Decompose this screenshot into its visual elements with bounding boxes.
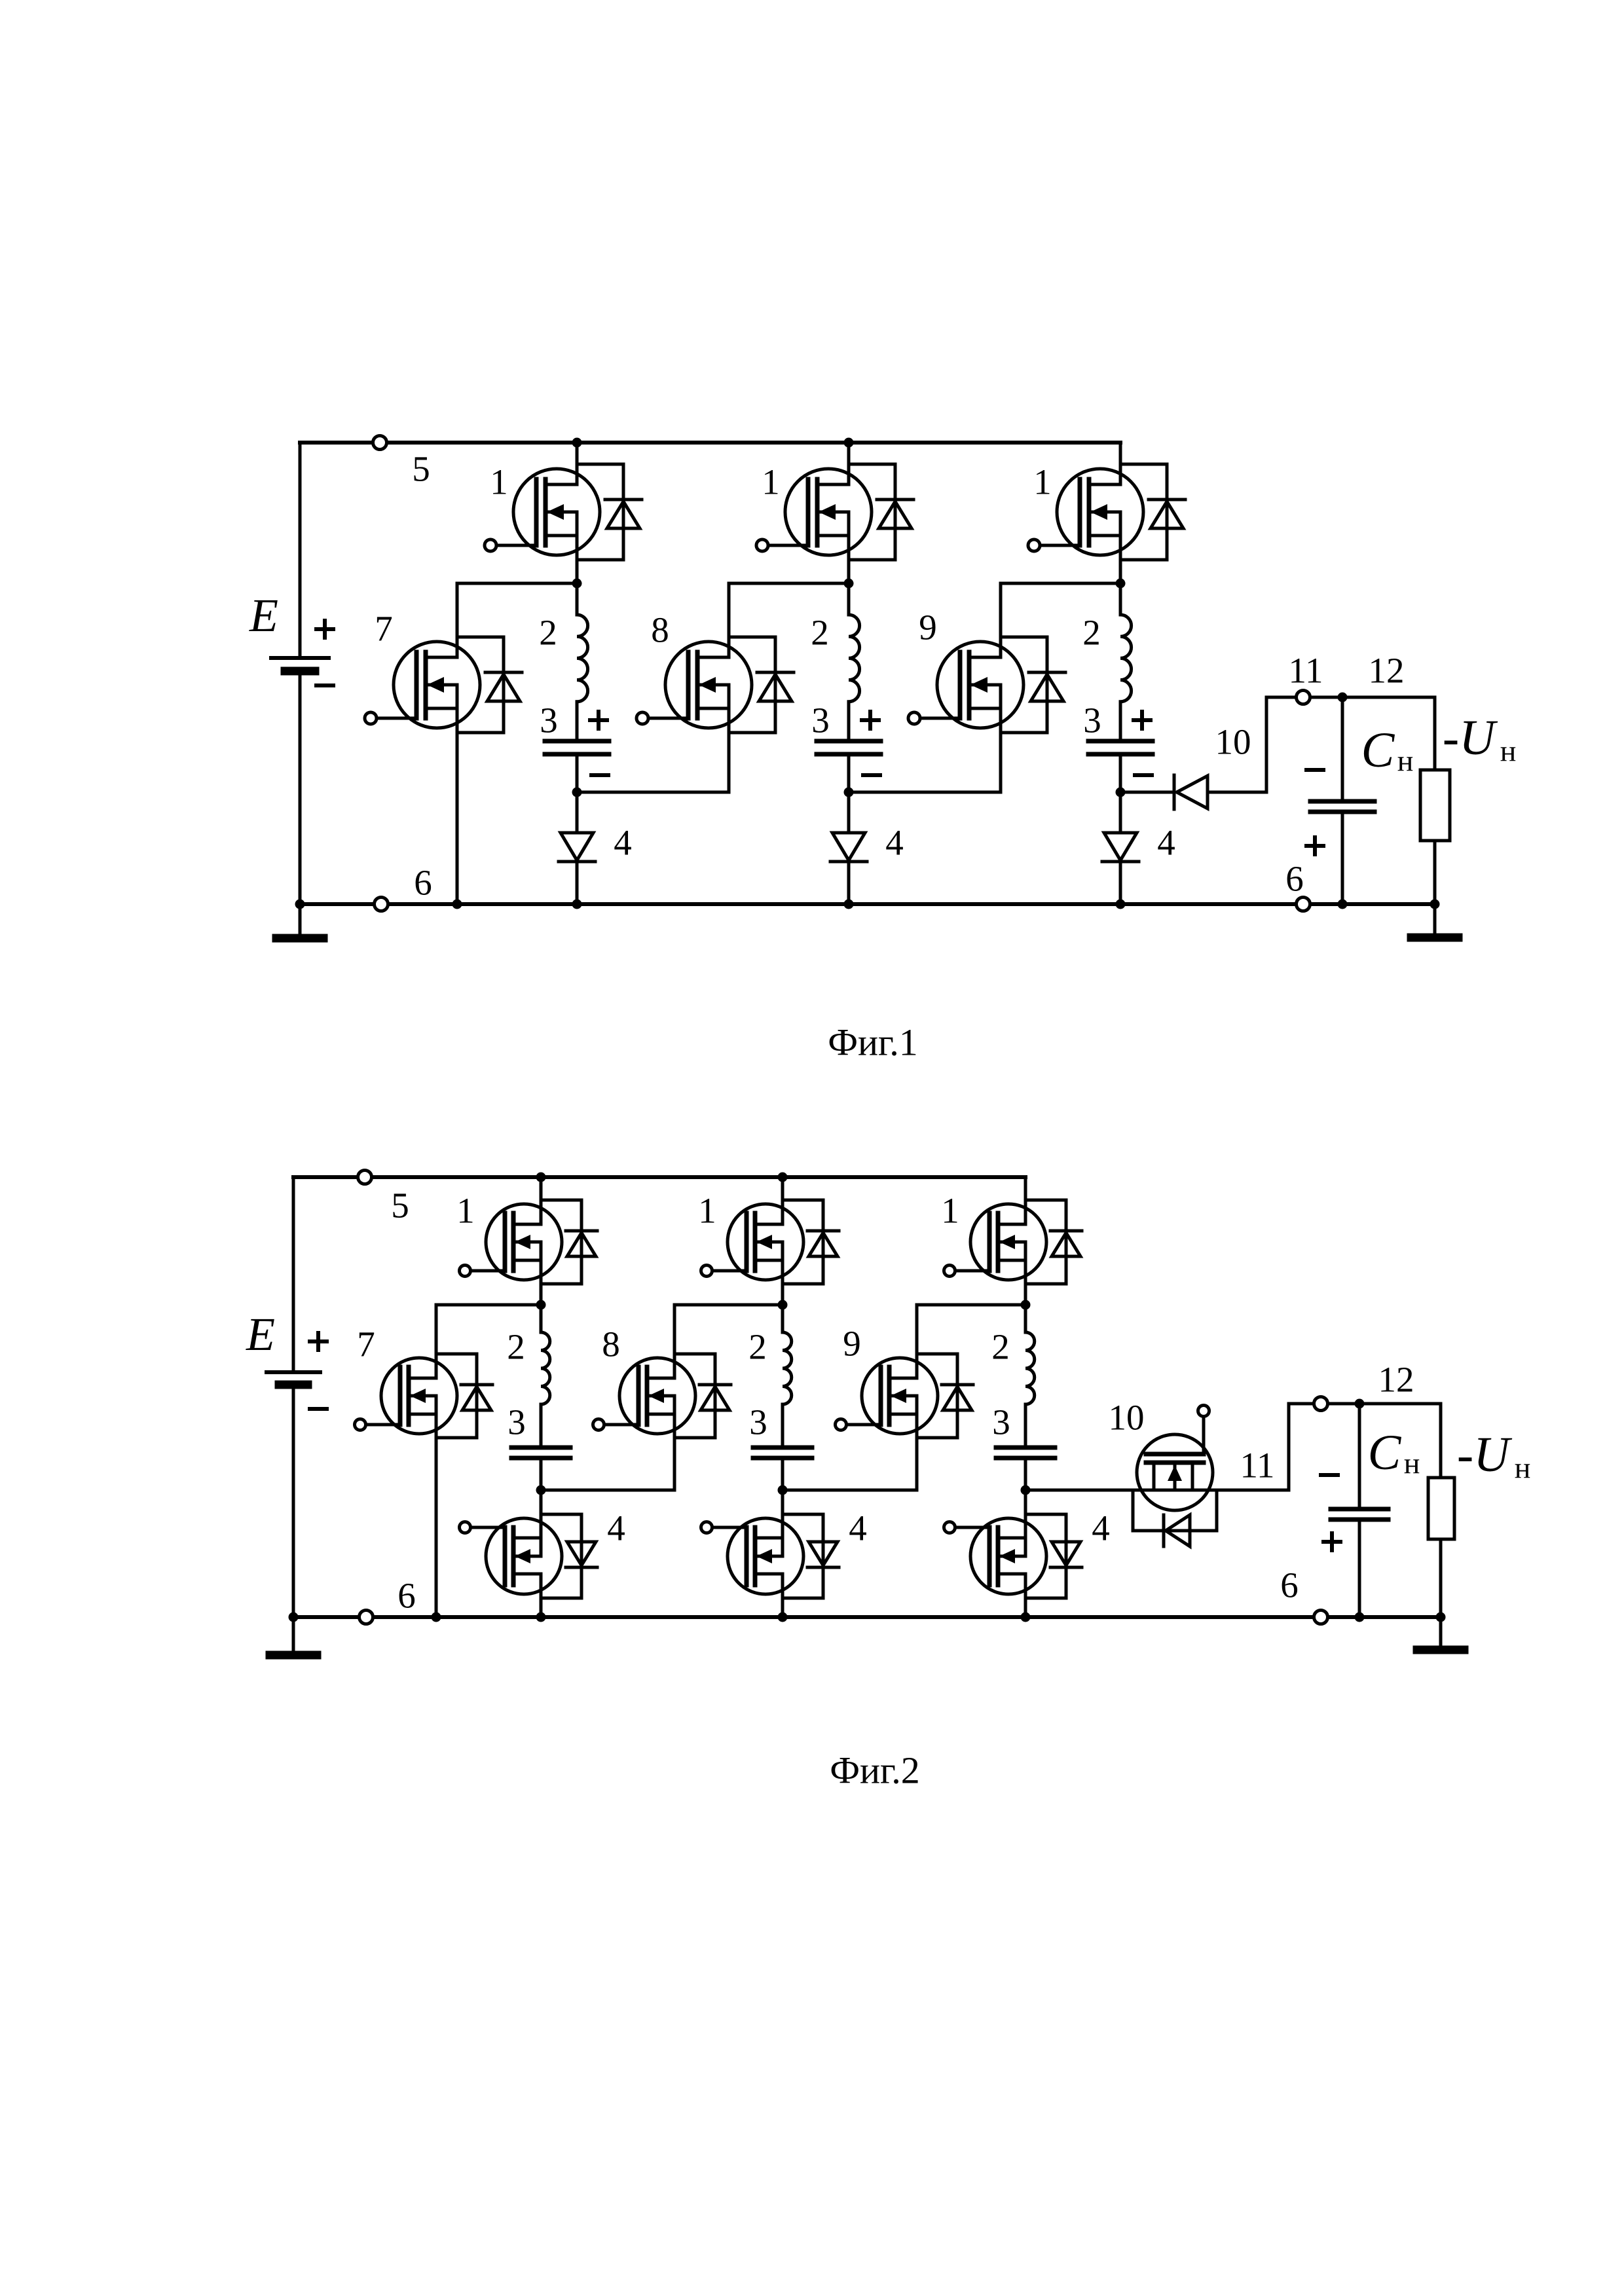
ground (left) xyxy=(270,1651,317,1660)
wire: phase3 capacitor node through transistor 10 to riser xyxy=(1025,1489,1289,1492)
junction (phase1 drain / bus 5) xyxy=(536,1173,546,1182)
svg-text:6: 6 xyxy=(1280,1565,1299,1605)
diode 4 (phase 2) xyxy=(830,833,867,862)
svg-text:3: 3 xyxy=(1083,701,1101,740)
wire: node 6 bottom bus xyxy=(300,902,1435,906)
svg-text:11: 11 xyxy=(1289,651,1323,691)
capacitor 3 (phase 3) xyxy=(996,1448,1055,1458)
wire: inductor to capacitor 3 xyxy=(847,702,851,741)
svg-text:2: 2 xyxy=(1082,613,1101,653)
wire: battery positive lead xyxy=(299,443,302,658)
wire: transistor 7 drain xyxy=(435,1305,438,1378)
wire: transistor 4 upper lead xyxy=(781,1490,784,1556)
wire: transistor 1 drain xyxy=(540,1177,543,1224)
capacitor 3 (phase 2) xyxy=(817,741,881,754)
terminal node 6 (left) xyxy=(375,898,388,911)
terminal node 6 (right) xyxy=(1314,1611,1328,1624)
svg-text:2: 2 xyxy=(507,1327,525,1367)
wire: transistor 1 source to inductor xyxy=(576,512,579,615)
capacitor 3 (phase 1) xyxy=(545,741,609,754)
svg-text:н: н xyxy=(1404,1447,1420,1480)
svg-text:Фиг.1: Фиг.1 xyxy=(828,1021,918,1064)
wire: transistor 4 upper lead xyxy=(540,1490,543,1556)
svg-text:9: 9 xyxy=(843,1324,861,1364)
inductor 2 (phase 1) xyxy=(577,615,588,702)
capacitor 3 minus sign (phase 3) xyxy=(1135,773,1152,777)
wire: capacitor 3 to node xyxy=(1119,754,1122,792)
wire: output rail 12 xyxy=(1289,1402,1441,1406)
battery plus sign xyxy=(316,621,333,638)
wire: transistor 1 drain xyxy=(847,443,851,484)
wire: capacitor 3 to node xyxy=(1024,1458,1027,1490)
terminal node xyxy=(1314,1397,1328,1411)
wire: ground stub (right) xyxy=(1433,904,1437,934)
wire: transistor 9 source xyxy=(915,1396,919,1490)
capacitor 3 minus sign (phase 1) xyxy=(591,773,608,777)
svg-text:2: 2 xyxy=(748,1327,767,1367)
svg-text:5: 5 xyxy=(412,449,430,489)
svg-text:9: 9 xyxy=(919,608,937,647)
wire: CH top lead xyxy=(1341,697,1344,801)
transistor 7 n-MOSFET with body diode xyxy=(365,637,522,733)
wire: transistor 7 source to bus 6 xyxy=(456,685,459,904)
junction node (phase 3 switch node) xyxy=(1116,579,1126,589)
wire: inductor to capacitor 3 xyxy=(1024,1404,1027,1448)
wire: transistor 9 source to phase 2 capacitor node xyxy=(849,791,1001,794)
diode 4 (phase 1) xyxy=(559,833,595,862)
junction (capacitor CH top) xyxy=(1355,1399,1365,1409)
transistor 1 (phase 2) n-MOSFET with body diode xyxy=(756,464,913,560)
wire: transistor 1 source to inductor xyxy=(1024,1242,1027,1332)
junction (transistor 4 / bus 6, phase 3) xyxy=(1021,1613,1031,1622)
junction (diode 4 / bus 6, phase 2) xyxy=(844,900,854,909)
junction (capacitor CH top) xyxy=(1338,693,1348,702)
svg-text:4: 4 xyxy=(1157,823,1175,863)
capacitor 3 minus sign (phase 2) xyxy=(863,773,880,777)
transistor 9 n-MOSFET with body diode xyxy=(908,637,1065,733)
wire: switch node to lower transistor drain xyxy=(729,582,849,585)
wire: load bottom lead xyxy=(1439,1539,1443,1617)
junction (phase 1 capacitor bottom node) xyxy=(536,1485,546,1495)
battery E xyxy=(267,1372,320,1385)
wire: transistor 9 source to phase 2 capacitor node xyxy=(783,1489,917,1492)
wire: transistor 8 drain xyxy=(673,1305,676,1378)
capacitor 3 (phase 1) xyxy=(511,1448,570,1458)
capacitor 3 plus sign (phase 2) xyxy=(862,712,879,729)
svg-text:1: 1 xyxy=(490,462,508,502)
transistor 4 (phase 2) n-MOSFET with body diode xyxy=(701,1514,840,1598)
junction (phase 3 capacitor bottom node) xyxy=(1116,788,1126,797)
junction (phase 2 capacitor bottom node) xyxy=(778,1485,788,1495)
svg-text:1: 1 xyxy=(1033,462,1052,502)
junction (load / bus 6) xyxy=(1436,1613,1446,1622)
wire: transistor 1 source to inductor xyxy=(1119,512,1122,615)
svg-text:E: E xyxy=(246,1308,275,1360)
junction (load / bus 6) xyxy=(1430,900,1440,909)
diode 4 (phase 3) xyxy=(1102,833,1139,862)
junction (phase 3 capacitor bottom node) xyxy=(1021,1485,1031,1495)
junction (CH / bus 6) xyxy=(1338,900,1348,909)
transistor 1 (phase 3) n-MOSFET with body diode xyxy=(1028,464,1185,560)
wire: transistor 1 source to inductor xyxy=(540,1242,543,1332)
wire: inductor to capacitor 3 xyxy=(540,1404,543,1448)
wire: capacitor 3 to node xyxy=(540,1458,543,1490)
wire: CH bottom lead xyxy=(1341,812,1344,904)
capacitor CH xyxy=(1331,1509,1388,1520)
wire: switch node to mid transistor drain xyxy=(436,1303,541,1307)
wire: load top lead xyxy=(1433,697,1437,770)
wire: switch node to lower transistor drain xyxy=(457,582,577,585)
diode 10 xyxy=(1174,775,1208,809)
inductor 2 (phase 2) xyxy=(783,1332,792,1404)
wire: load bottom lead xyxy=(1433,841,1437,904)
capacitor 3 (phase 2) xyxy=(753,1448,812,1458)
transistor 4 (phase 1) n-MOSFET with body diode xyxy=(460,1514,598,1598)
capacitor 3 (phase 3) xyxy=(1088,741,1153,754)
wire: inductor to capacitor 3 xyxy=(1119,702,1122,741)
junction (diode 4 / bus 6, phase 1) xyxy=(572,900,582,909)
wire: load top lead xyxy=(1439,1404,1443,1478)
capacitor CH minus sign xyxy=(1321,1473,1338,1477)
wire: transistor 1 drain xyxy=(576,443,579,484)
wire: capacitor 3 to node xyxy=(576,754,579,792)
junction (phase2 drain / bus 5) xyxy=(844,438,854,448)
transistor 4 (phase 3) n-MOSFET with body diode xyxy=(944,1514,1082,1598)
transistor 8 n-MOSFET with body diode xyxy=(637,637,794,733)
terminal node 5 xyxy=(358,1171,372,1184)
svg-text:10: 10 xyxy=(1109,1398,1145,1438)
junction (phase 1 capacitor bottom node) xyxy=(572,788,582,797)
wire: transistor 1 source to inductor xyxy=(781,1242,784,1332)
battery minus sign xyxy=(310,1407,327,1411)
wire: transistor 9 source xyxy=(999,685,1003,792)
wire: switch node to lower transistor drain xyxy=(1001,582,1120,585)
wire: transistor 1 drain xyxy=(1119,443,1122,484)
svg-text:C: C xyxy=(1361,723,1395,778)
svg-text:8: 8 xyxy=(651,610,669,650)
wire: output node 11-12 rail xyxy=(1266,696,1435,699)
wire: diode 10 to riser xyxy=(1208,791,1266,794)
inductor 2 (phase 2) xyxy=(849,615,860,702)
battery minus sign xyxy=(316,683,333,687)
svg-text:6: 6 xyxy=(397,1576,416,1616)
wire: diode 4 to bus 6 xyxy=(576,862,579,904)
wire: inductor to capacitor 3 xyxy=(781,1404,784,1448)
wire: switch node to mid transistor drain xyxy=(674,1303,783,1307)
wire: switch node to mid transistor drain xyxy=(917,1303,1025,1307)
junction (transistor 4 / bus 6, phase 2) xyxy=(778,1613,788,1622)
svg-text:3: 3 xyxy=(811,701,830,740)
ground (right) xyxy=(1411,934,1458,942)
wire: capacitor 3 to node xyxy=(781,1458,784,1490)
svg-text:-U: -U xyxy=(1443,710,1498,765)
wire: transistor 1 source to inductor xyxy=(847,512,851,615)
wire: phase3 capacitor node to diode 10 xyxy=(1120,791,1172,794)
wire: node 5 top bus xyxy=(293,1175,1025,1179)
svg-text:н: н xyxy=(1500,735,1517,768)
svg-text:3: 3 xyxy=(749,1402,767,1442)
wire: battery negative lead xyxy=(299,671,302,904)
svg-text:3: 3 xyxy=(507,1402,526,1442)
wire: node 5 top bus xyxy=(300,441,1120,445)
wire: transistor 8 source xyxy=(728,685,731,792)
wire: transistor 1 drain xyxy=(1024,1177,1027,1224)
svg-text:-U: -U xyxy=(1457,1427,1512,1482)
battery plus sign xyxy=(310,1333,327,1350)
wire: transistor 7 drain xyxy=(456,583,459,657)
wire: output riser xyxy=(1287,1404,1291,1490)
wire: inductor to capacitor 3 xyxy=(576,702,579,741)
transistor 1 (phase 2) n-MOSFET with body diode xyxy=(701,1200,840,1284)
wire: transistor 4 source to bus 6 xyxy=(781,1574,784,1617)
junction node (phase 1 switch node) xyxy=(572,579,582,589)
wire: transistor 4 source to bus 6 xyxy=(540,1574,543,1617)
svg-text:4: 4 xyxy=(607,1508,625,1548)
wire: capacitor 3 to node xyxy=(847,754,851,792)
capacitor 3 plus sign (phase 1) xyxy=(590,712,607,729)
capacitor CH plus sign xyxy=(1323,1533,1340,1550)
junction (phase2 drain / bus 5) xyxy=(778,1173,788,1182)
svg-text:2: 2 xyxy=(811,613,829,653)
transistor 7 n-MOSFET with body diode xyxy=(355,1354,493,1438)
wire: battery negative lead xyxy=(292,1385,295,1617)
inductor 2 (phase 1) xyxy=(541,1332,550,1404)
svg-text:5: 5 xyxy=(391,1186,409,1226)
svg-text:10: 10 xyxy=(1215,722,1251,762)
svg-text:1: 1 xyxy=(698,1191,716,1231)
wire: node to diode 4 xyxy=(576,792,579,833)
capacitor 3 plus sign (phase 3) xyxy=(1134,712,1151,729)
wire: diode 4 to bus 6 xyxy=(1119,862,1122,904)
wire: node to diode 4 xyxy=(1119,792,1122,833)
ground (right) xyxy=(1417,1646,1464,1654)
transistor 10 n-MOSFET (horizontal) with body diode xyxy=(1133,1406,1217,1547)
wire: node 6 bottom bus xyxy=(293,1615,1441,1619)
transistor 1 (phase 3) n-MOSFET with body diode xyxy=(944,1200,1082,1284)
svg-text:1: 1 xyxy=(456,1191,475,1231)
terminal node 6 (right) xyxy=(1297,898,1310,911)
load resistor Rн xyxy=(1420,770,1450,841)
svg-text:12: 12 xyxy=(1378,1360,1414,1400)
transistor 1 (phase 1) n-MOSFET with body diode xyxy=(460,1200,598,1284)
junction (diode 4 / bus 6, phase 3) xyxy=(1116,900,1126,909)
battery E xyxy=(271,658,329,671)
wire: output riser xyxy=(1265,697,1268,792)
svg-text:4: 4 xyxy=(885,823,904,863)
capacitor CH plus sign xyxy=(1306,837,1323,854)
svg-text:1: 1 xyxy=(762,462,780,502)
terminal node 6 (left) xyxy=(360,1611,373,1624)
junction (battery / bus 6) xyxy=(289,1613,299,1622)
wire: transistor 8 source to phase 1 capacitor node xyxy=(577,791,729,794)
svg-text:3: 3 xyxy=(992,1402,1010,1442)
wire: transistor 4 source to bus 6 xyxy=(1024,1574,1027,1617)
junction node (phase 2 switch node) xyxy=(778,1300,788,1310)
wire: transistor 1 drain xyxy=(781,1177,784,1224)
svg-text:4: 4 xyxy=(614,823,632,863)
wire: transistor 8 source to phase 1 capacitor node xyxy=(541,1489,674,1492)
terminal node 11 xyxy=(1297,691,1310,704)
transistor 9 n-MOSFET with body diode xyxy=(836,1354,974,1438)
load resistor Rн xyxy=(1428,1478,1454,1539)
svg-text:8: 8 xyxy=(602,1324,620,1364)
capacitor CH xyxy=(1310,801,1375,812)
svg-text:н: н xyxy=(1515,1451,1531,1485)
wire: node to diode 4 xyxy=(847,792,851,833)
wire: transistor 8 drain xyxy=(728,583,731,657)
svg-text:4: 4 xyxy=(849,1508,867,1548)
wire: CH top lead xyxy=(1358,1404,1361,1509)
svg-text:3: 3 xyxy=(540,701,558,740)
svg-text:7: 7 xyxy=(375,609,393,649)
svg-text:2: 2 xyxy=(991,1327,1010,1367)
wire: transistor 9 drain xyxy=(999,583,1003,657)
wire: battery positive lead xyxy=(292,1177,295,1372)
junction (phase 2 capacitor bottom node) xyxy=(844,788,854,797)
wire: transistor 4 upper lead xyxy=(1024,1490,1027,1556)
junction node (phase 3 switch node) xyxy=(1021,1300,1031,1310)
capacitor CH minus sign xyxy=(1306,768,1323,772)
svg-text:4: 4 xyxy=(1092,1508,1110,1548)
junction node (phase 1 switch node) xyxy=(536,1300,546,1310)
junction (transistor 7 source / bus 6) xyxy=(452,900,462,909)
junction (transistor 4 / bus 6, phase 1) xyxy=(536,1613,546,1622)
junction node (phase 2 switch node) xyxy=(844,579,854,589)
wire: diode 4 to bus 6 xyxy=(847,862,851,904)
wire: transistor 9 drain xyxy=(915,1305,919,1378)
wire: ground stub xyxy=(299,904,302,935)
junction (phase1 drain / bus 5) xyxy=(572,438,582,448)
svg-text:н: н xyxy=(1397,744,1414,778)
wire: transistor 8 source xyxy=(673,1396,676,1490)
svg-text:2: 2 xyxy=(539,613,557,653)
inductor 2 (phase 3) xyxy=(1025,1332,1035,1404)
wire: ground stub (right) xyxy=(1439,1617,1443,1647)
svg-text:E: E xyxy=(249,589,278,642)
svg-text:1: 1 xyxy=(941,1191,959,1231)
svg-text:6: 6 xyxy=(1285,859,1304,899)
wire: transistor 7 source to bus 6 xyxy=(435,1396,438,1617)
junction (battery / bus 6) xyxy=(295,900,305,909)
transistor 1 (phase 1) n-MOSFET with body diode xyxy=(485,464,642,560)
svg-text:7: 7 xyxy=(357,1324,375,1364)
svg-text:Фиг.2: Фиг.2 xyxy=(830,1749,920,1792)
svg-text:12: 12 xyxy=(1369,651,1405,691)
svg-text:6: 6 xyxy=(414,863,432,903)
wire: ground stub xyxy=(292,1617,295,1652)
ground (left) xyxy=(276,934,323,943)
svg-text:C: C xyxy=(1368,1425,1402,1480)
svg-text:11: 11 xyxy=(1240,1446,1275,1485)
junction (CH / bus 6) xyxy=(1355,1613,1365,1622)
wire: CH bottom lead xyxy=(1358,1520,1361,1617)
junction (transistor 7 source / bus 6) xyxy=(432,1613,441,1622)
transistor 8 n-MOSFET with body diode xyxy=(593,1354,731,1438)
inductor 2 (phase 3) xyxy=(1120,615,1132,702)
terminal node 5 xyxy=(373,436,387,450)
